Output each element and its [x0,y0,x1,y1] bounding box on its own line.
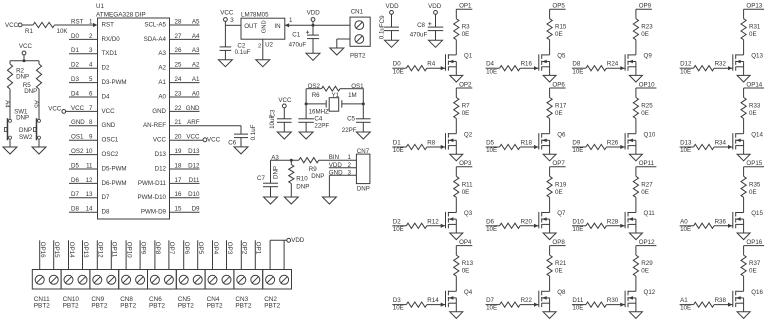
connector CN8 PBT2 [119,270,148,290]
ground [218,60,232,67]
ground [543,75,556,82]
svg-text:R15: R15 [555,24,567,31]
svg-text:D2: D2 [71,62,79,69]
svg-text:OP1: OP1 [459,3,472,10]
svg-text:3: 3 [230,17,234,24]
wire [435,14,437,27]
wire BIN [319,159,357,161]
U1 pin 25 (A2) [170,67,200,69]
svg-text:OP13: OP13 [746,3,762,10]
resistor R21 0E [547,255,552,276]
wire node OP12 [96,240,98,269]
svg-text:OS2: OS2 [71,148,84,155]
resistor R38 10E [680,304,694,306]
svg-text:18: 18 [175,162,182,169]
capacitor C4 22PF [298,118,314,120]
U1 pin 16 (D10) [170,197,200,199]
svg-text:20: 20 [175,134,182,141]
svg-text:LM78M05: LM78M05 [241,12,269,19]
svg-text:D6: D6 [486,218,494,225]
ground [543,233,556,240]
svg-text:D6-PWM: D6-PWM [102,180,127,187]
svg-text:10E: 10E [572,305,583,312]
wire [549,140,551,154]
svg-text:19: 19 [175,148,182,155]
svg-text:0E: 0E [749,268,757,275]
svg-text:Q7: Q7 [557,210,566,217]
wire [455,298,457,312]
resistor R33 0E [741,98,746,119]
svg-text:Q15: Q15 [751,210,763,217]
connector CN2 PBT2 [263,270,292,290]
wire node OP4 [212,240,214,269]
svg-text:C1: C1 [292,31,300,38]
wire [455,167,457,177]
wire [635,298,637,312]
ground [543,154,556,161]
wire ARF drop [240,126,242,135]
wire gate [520,146,539,148]
wire [743,219,745,233]
wire [635,167,637,177]
wire [455,9,457,19]
resistor R12 10E [392,225,406,227]
svg-text:OP4: OP4 [212,242,219,255]
svg-text:DNP: DNP [357,185,370,192]
svg-text:2: 2 [89,33,93,40]
svg-text:OP10: OP10 [125,242,132,258]
svg-text:A4: A4 [192,33,200,40]
capacitor C9 0.1uF [384,26,399,28]
svg-text:DNP: DNP [24,88,37,95]
wire RST to U1 pin 1 [55,24,95,26]
wire [549,298,551,312]
wire [9,61,11,64]
wire [224,50,226,59]
ground [356,132,370,139]
svg-text:12: 12 [86,177,93,184]
wire [224,21,226,25]
wire [635,219,637,233]
svg-text:23: 23 [175,90,182,97]
svg-text:OP8: OP8 [154,242,161,255]
wire [549,219,551,233]
wire node A4 [9,89,11,119]
wire gate [714,67,733,69]
svg-text:Q3: Q3 [464,210,473,217]
ground [385,40,399,47]
wire gate [427,146,446,148]
wire [635,40,637,55]
svg-text:PBT2: PBT2 [178,302,194,309]
U1 pin 10 (OS2) [69,154,98,156]
resistor R35 0E [741,176,746,197]
svg-text:C9: C9 [379,15,386,23]
svg-text:Q13: Q13 [751,53,763,60]
svg-text:A2: A2 [158,65,166,72]
transistor Q9 [624,54,626,70]
wire [455,246,457,256]
svg-text:R12: R12 [427,218,439,225]
wire [9,139,11,147]
svg-text:U2: U2 [265,42,273,49]
wire [743,298,745,312]
wire [743,140,745,154]
svg-text:D5-PWM: D5-PWM [102,165,127,172]
svg-text:D11: D11 [572,297,583,304]
junction [362,102,365,105]
svg-text:R3: R3 [462,24,470,31]
wire [455,197,457,212]
wire [549,119,551,134]
svg-text:PBT2: PBT2 [149,302,165,309]
wire node OP3 [226,240,228,269]
svg-text:D10: D10 [572,218,584,225]
svg-text:SCL-A5: SCL-A5 [144,21,166,28]
svg-text:1: 1 [348,154,352,161]
svg-text:R16: R16 [521,61,533,68]
wire node OP11 [110,240,112,269]
wire [362,89,364,119]
svg-text:DNP: DNP [272,166,279,179]
wire VDD pin2 [329,167,357,169]
wire node OP15 [53,240,55,269]
U1 pin 22 (GND) [170,110,200,112]
svg-text:0E: 0E [641,189,649,196]
ground [629,154,642,161]
svg-text:R24: R24 [607,61,619,68]
svg-text:10E: 10E [680,68,691,75]
wire [391,31,393,41]
wire gate [520,304,539,306]
ground [256,60,270,67]
ground [299,132,313,139]
svg-text:D7: D7 [71,191,79,198]
svg-text:R35: R35 [749,181,761,188]
svg-text:AN-REF: AN-REF [143,122,166,129]
svg-text:OP8: OP8 [552,239,565,246]
chip U1 ATMEGA328 DIP body [98,18,170,219]
svg-text:6: 6 [89,90,93,97]
resistor R17 0E [547,98,552,119]
svg-text:OP12: OP12 [97,242,104,258]
svg-text:Q14: Q14 [751,131,763,138]
resistor R13 0E [454,255,459,276]
wire [549,197,551,212]
svg-text:10E: 10E [680,226,691,233]
wire [283,108,285,119]
resistor R27 0E [633,176,638,197]
svg-text:0E: 0E [462,31,470,38]
svg-text:D4: D4 [71,90,79,97]
svg-text:R14: R14 [427,297,439,304]
svg-text:17: 17 [175,177,182,184]
svg-text:D6: D6 [71,177,79,184]
wire [10,60,39,62]
capacitor C2 0.1uF [220,46,232,48]
wire C1 drop [312,25,314,35]
resistor R11 0E [454,176,459,197]
wire node OP8 [154,240,156,269]
svg-text:D12: D12 [680,61,692,68]
svg-text:R22: R22 [521,297,533,304]
wire [635,119,637,134]
svg-text:1M: 1M [348,92,357,99]
power VCC at U1 pin 20 [203,138,207,142]
svg-text:A0: A0 [158,93,166,100]
svg-text:VCC: VCC [153,137,167,144]
wire [549,88,551,98]
svg-text:DNP: DNP [311,173,324,180]
wire [743,246,745,256]
U1 pin 21 (ARF) [170,125,242,127]
svg-text:Q10: Q10 [644,131,656,138]
transistor Q13 [732,54,734,70]
svg-text:0E: 0E [749,110,757,117]
U1 pin 27 (A4) [170,38,200,40]
svg-text:10E: 10E [393,68,404,75]
svg-text:R28: R28 [607,218,619,225]
svg-text:D2: D2 [102,65,110,72]
switch SW1 DNP [9,119,12,122]
wire [743,88,745,98]
wire node OP9 [139,240,141,269]
svg-text:D13: D13 [680,140,692,147]
svg-text:R23: R23 [641,24,653,31]
ground [737,75,750,82]
wire [635,197,637,212]
svg-text:21: 21 [175,119,182,126]
resistor R6 1M [322,86,341,91]
wire [290,184,292,198]
wire VDD rail [285,24,350,26]
wire [455,119,457,134]
svg-text:VCC: VCC [220,10,234,17]
wire [340,88,351,90]
svg-text:0E: 0E [555,268,563,275]
svg-text:0E: 0E [641,31,649,38]
wire [312,39,314,54]
svg-text:0E: 0E [462,110,470,117]
resistor R19 0E [547,176,552,197]
svg-text:R21: R21 [555,260,567,267]
ground [629,75,642,82]
svg-text:Q5: Q5 [557,53,566,60]
switch SW2 DNP [38,119,41,122]
wire [305,122,307,132]
resistor R30 10E [572,304,586,306]
transistor Q15 [732,212,734,228]
svg-text:SDA-A4: SDA-A4 [144,36,167,43]
wire node OP14 [68,240,70,269]
connector CN1 PBT2 [350,17,370,46]
resistor R16 10E [486,67,500,69]
wire node OP16 [39,240,41,269]
wire VDD [283,240,285,269]
U1 pin 15 (D9) [170,211,200,213]
svg-text:R10: R10 [296,175,308,182]
wire gate [606,304,625,306]
svg-text:GND: GND [186,105,200,112]
wire [455,219,457,233]
power VDD (bottom) [287,238,291,242]
svg-text:OP2: OP2 [459,81,472,88]
U1 pin 28 (A5) [170,24,200,26]
ground [429,40,443,47]
svg-text:C8: C8 [417,22,425,29]
wire [455,62,457,76]
svg-text:CN1: CN1 [351,9,364,16]
svg-text:OP15: OP15 [746,160,762,167]
resistor R31 0E [741,19,746,40]
svg-text:OUT: OUT [244,23,257,30]
ground [277,132,291,139]
resistor R25 0E [633,98,638,119]
resistor R29 0E [633,255,638,276]
svg-text:R8: R8 [427,140,435,147]
svg-text:10E: 10E [486,147,497,154]
svg-text:OP9: OP9 [639,3,652,10]
svg-text:OSC2: OSC2 [102,151,119,158]
svg-text:VCC: VCC [19,43,33,50]
wire C2 drop [224,25,226,47]
resistor R18 10E [486,146,500,148]
U1 pin 3 (D1) [69,53,98,55]
resistor R2 DNP [7,64,12,89]
svg-text:U1: U1 [96,3,104,10]
connector CN9 PBT2 [90,270,119,290]
wire [312,21,314,25]
U1 pin 26 (A3) [170,53,200,55]
capacitor C7 DNP [263,182,278,184]
svg-text:OP12: OP12 [639,239,655,246]
svg-text:PBT2: PBT2 [34,302,50,309]
svg-text:D13: D13 [188,148,200,155]
svg-text:A0: A0 [192,90,200,97]
svg-text:D8: D8 [572,61,580,68]
svg-text:D13: D13 [155,151,167,158]
svg-text:10E: 10E [486,68,497,75]
svg-text:R29: R29 [641,260,653,267]
svg-text:TXD1: TXD1 [102,50,118,57]
svg-text:27: 27 [175,33,182,40]
ground [629,233,642,240]
ground [284,197,298,204]
svg-text:OSC1: OSC1 [102,137,119,144]
svg-text:10E: 10E [486,226,497,233]
svg-text:OP16: OP16 [746,239,762,246]
svg-text:ARF: ARF [187,119,200,126]
svg-text:1: 1 [289,17,293,24]
resistor R22 10E [486,304,500,306]
svg-text:PBT2: PBT2 [350,53,366,60]
svg-text:D0: D0 [393,61,401,68]
svg-text:Q9: Q9 [644,53,653,60]
svg-text:OP2: OP2 [241,242,248,255]
U1 pin 23 (A0) [170,96,200,98]
ground [330,48,344,55]
U1 pin 4 (D2) [69,67,98,69]
svg-text:D4: D4 [486,61,494,68]
svg-text:D0: D0 [71,33,79,40]
svg-text:D5: D5 [486,140,494,147]
svg-text:11: 11 [86,162,93,169]
svg-text:VCC: VCC [102,108,116,115]
ground [737,154,750,161]
junction [290,159,293,162]
svg-text:DNP: DNP [296,183,309,190]
svg-text:OP13: OP13 [82,242,89,258]
wire gate [714,225,733,227]
svg-text:OP10: OP10 [639,81,655,88]
svg-text:OP3: OP3 [459,160,472,167]
svg-text:D9: D9 [572,140,580,147]
U1 pin 8 (GND) [69,125,98,127]
transistor Q12 [624,291,626,307]
wire VDD link [270,239,287,241]
svg-text:A4: A4 [4,100,11,108]
wire VDD [269,240,271,269]
wire [743,197,745,212]
svg-text:D3-PWM: D3-PWM [102,79,127,86]
svg-text:10E: 10E [680,305,691,312]
U1 pin 20 (VCC) [170,139,204,141]
wire [305,89,307,119]
svg-text:C5: C5 [347,116,355,123]
ground [737,312,750,319]
wire C7 drop [270,160,272,183]
svg-text:10: 10 [86,148,93,155]
svg-text:22PF: 22PF [342,127,357,134]
wire gate [606,146,625,148]
svg-text:D7: D7 [486,297,494,304]
resistor R20 10E [486,225,500,227]
wire [743,9,745,19]
ground [450,75,463,82]
wire [391,14,393,27]
svg-text:0E: 0E [555,189,563,196]
svg-text:VDD: VDD [291,237,305,244]
U1 pin 12 (D6) [69,182,98,184]
U1 pin 17 (D11) [170,182,200,184]
svg-text:OP6: OP6 [552,81,565,88]
wire node OP13 [82,240,84,269]
svg-text:24: 24 [175,76,182,83]
svg-text:D4: D4 [102,93,110,100]
svg-text:R38: R38 [715,297,727,304]
ground [264,197,278,204]
svg-text:0E: 0E [555,110,563,117]
wire [549,9,551,19]
svg-text:2: 2 [258,44,261,50]
resistor R14 10E [392,304,406,306]
svg-text:GND: GND [329,169,343,176]
svg-text:Q4: Q4 [464,289,473,296]
svg-text:D7: D7 [102,194,110,201]
svg-text:1: 1 [89,18,93,25]
svg-text:10E: 10E [572,147,583,154]
svg-text:Q8: Q8 [557,289,566,296]
connector CN3 PBT2 [234,270,263,290]
transistor Q11 [624,212,626,228]
wire [549,246,551,256]
svg-text:C6: C6 [228,139,236,146]
svg-text:9: 9 [89,134,93,141]
svg-text:R19: R19 [555,181,567,188]
wire node OP10 [125,240,127,269]
svg-text:10E: 10E [486,305,497,312]
transistor Q5 [538,54,540,70]
